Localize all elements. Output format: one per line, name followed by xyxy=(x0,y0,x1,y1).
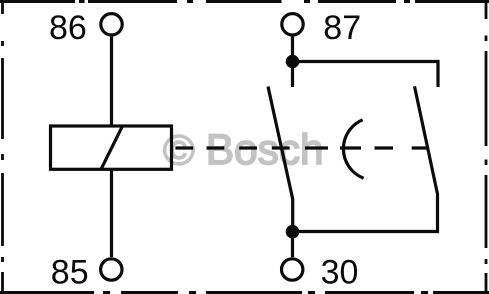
svg-text:Bosch: Bosch xyxy=(206,126,324,174)
svg-text:87: 87 xyxy=(323,9,361,47)
svg-text:30: 30 xyxy=(321,253,359,291)
svg-text:86: 86 xyxy=(49,9,87,47)
svg-text:©: © xyxy=(163,127,195,175)
svg-text:85: 85 xyxy=(51,253,89,291)
